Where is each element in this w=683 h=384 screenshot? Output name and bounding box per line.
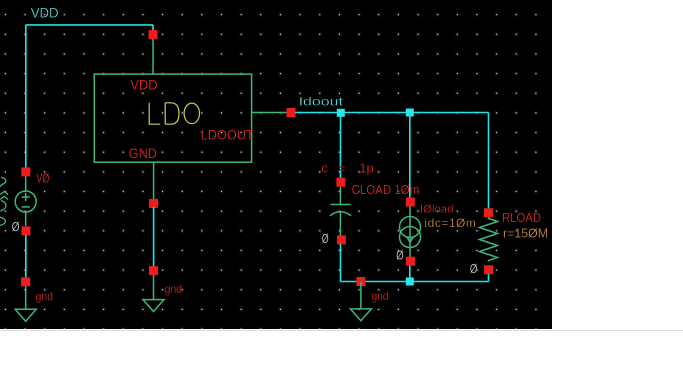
svg-text:VDD: VDD — [31, 4, 59, 20]
ground symbol middle — [350, 282, 371, 321]
ground symbol under LDO — [143, 271, 164, 312]
clipped symbol at left edge — [0, 177, 8, 225]
svg-text:Ø: Ø — [470, 261, 478, 276]
voltage source V0 — [15, 176, 36, 226]
svg-text:GND: GND — [129, 145, 157, 161]
pin top of I0load — [406, 198, 415, 207]
capacitor CLOAD — [330, 187, 351, 236]
svg-text:gnd: gnd — [372, 289, 389, 303]
junction at rail and I0load — [406, 278, 414, 286]
svg-text:VDD: VDD — [130, 76, 157, 92]
wire bottom rail — [341, 281, 489, 283]
svg-text:Ø: Ø — [12, 219, 20, 234]
wire to CLOAD top — [340, 113, 342, 179]
resistor RLOAD — [480, 217, 498, 261]
svg-text:Ø: Ø — [396, 247, 404, 262]
pin bottom of RLOAD — [484, 265, 493, 274]
pin minus of V0 — [22, 226, 31, 235]
svg-text:idc=1Øm: idc=1Øm — [425, 216, 476, 230]
svg-text:Ø: Ø — [322, 231, 329, 246]
pin top of RLOAD — [484, 208, 493, 217]
wire Idoout horizontal rail — [295, 112, 489, 114]
wire to I0load top — [409, 113, 411, 199]
svg-text:RLOAD: RLOAD — [502, 211, 541, 225]
svg-text:r=15ØM: r=15ØM — [503, 226, 548, 241]
window border line — [0, 330, 683, 332]
svg-text:VØ: VØ — [36, 171, 49, 186]
wire VDD vertical left to V0 — [25, 25, 27, 169]
wire VDD vertical to LDO pin — [152, 25, 154, 33]
pin of LDO ground — [149, 266, 158, 275]
pin bottom of I0load — [406, 257, 415, 266]
wire CLOAD bottom to rail — [340, 244, 342, 282]
pin top of CLOAD — [336, 178, 345, 187]
pin LDOOUT of LDO — [287, 108, 296, 117]
wire I0load bottom to rail — [409, 266, 411, 282]
svg-text:gnd: gnd — [35, 290, 53, 304]
wire LDO GND to ground — [153, 207, 155, 267]
junction at idc branch — [406, 109, 414, 117]
schematic canvas background — [0, 0, 552, 329]
svg-text:LDOOUT: LDOOUT — [201, 126, 255, 142]
LDO block instance — [94, 39, 287, 199]
pin VDD of LDO — [149, 30, 158, 39]
svg-text:Idoout: Idoout — [299, 95, 344, 109]
pin bottom of CLOAD — [337, 235, 346, 244]
junction at cap branch — [337, 109, 345, 117]
pin plus of V0 — [21, 167, 30, 176]
wire right branch down to RLOAD — [488, 113, 490, 209]
svg-text:gnd: gnd — [165, 282, 183, 296]
wire V0 to ground — [25, 235, 27, 278]
wire RLOAD bottom to rail — [488, 274, 490, 282]
pin of middle ground — [356, 277, 365, 286]
ground symbol left — [15, 282, 36, 321]
wire VDD horizontal top — [26, 24, 153, 26]
pin of left ground — [21, 277, 30, 286]
block name LDO — [149, 103, 199, 124]
current source I0load — [400, 207, 421, 258]
svg-text:IØload: IØload — [420, 204, 454, 216]
pin GND of LDO — [149, 199, 158, 208]
